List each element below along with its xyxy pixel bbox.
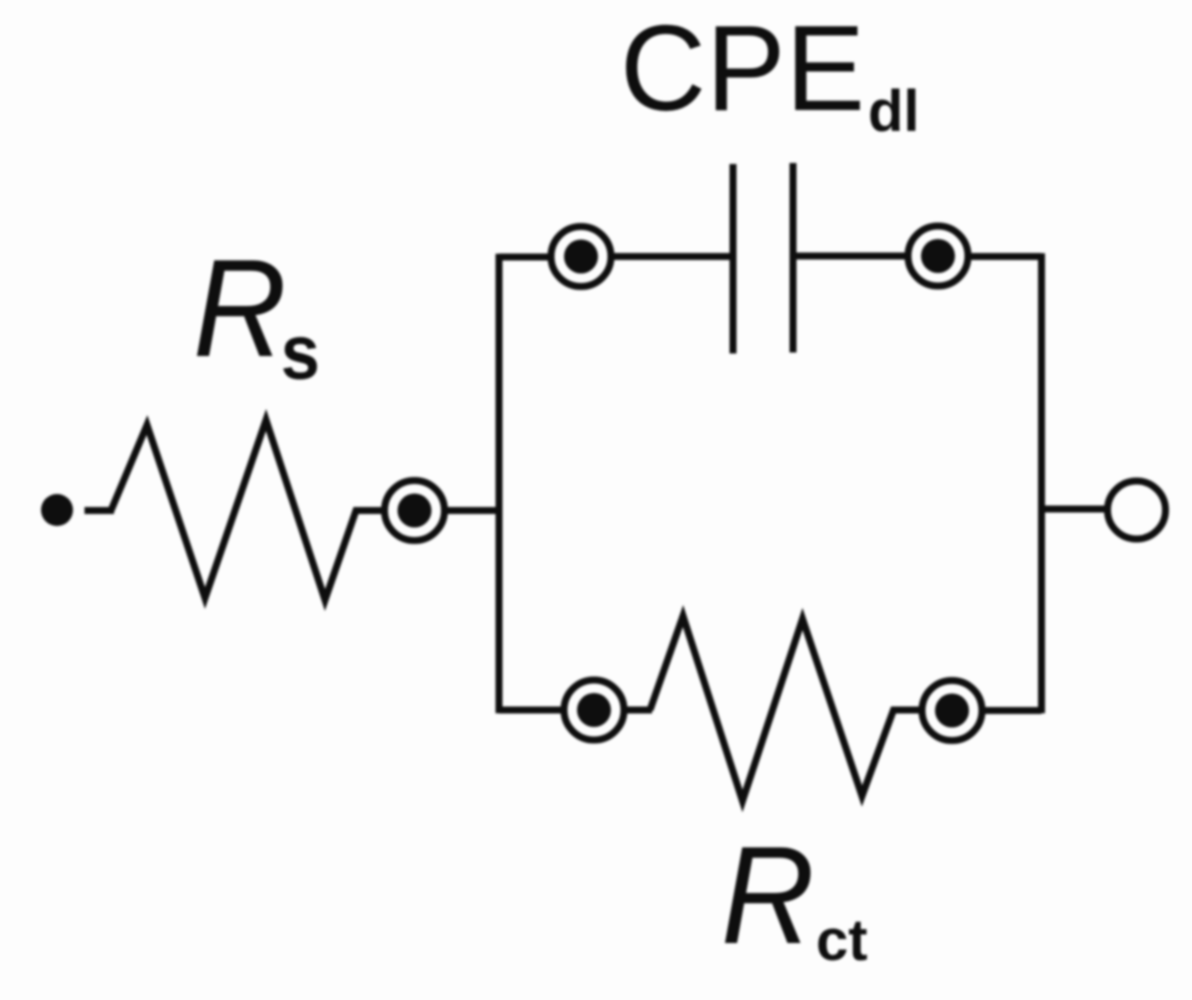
svg-text:R: R <box>721 818 815 973</box>
svg-text:R: R <box>193 231 287 386</box>
svg-text:s: s <box>281 310 320 396</box>
svg-text:ct: ct <box>816 908 868 973</box>
svg-text:CPE: CPE <box>620 0 865 136</box>
svg-text:dl: dl <box>868 79 920 144</box>
